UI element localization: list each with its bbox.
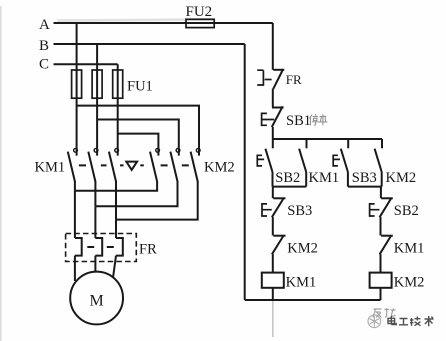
svg-text:KM2: KM2 — [287, 240, 318, 256]
coil KM2 — [370, 273, 425, 291]
wire fuse2 to KM1 contact 2 — [96, 70, 98, 156]
contactor KM2 NC interlock contact — [272, 235, 318, 256]
FR heater linkage dashes — [87, 246, 114, 248]
wire fuse1 to KM1 contact 1 — [76, 70, 78, 156]
wire tap B to KM2 contact 2 — [97, 120, 179, 156]
watermark 电工技术 text — [388, 316, 434, 326]
scan smear artifact above phase A — [57, 19, 213, 20]
svg-text:A: A — [39, 17, 50, 33]
svg-text:KM2: KM2 — [386, 170, 417, 186]
FR heater element 2 — [95, 238, 102, 256]
contactor KM2 aux NO contact — [375, 139, 417, 187]
coil KM1 — [262, 273, 316, 291]
mechanical linkage dashes with triangle — [79, 162, 189, 170]
wire KM1 NC to KM2 coil — [380, 254, 382, 273]
wire SB2 NC to KM1 NC — [380, 217, 382, 236]
wire FR heater 3 to motor — [113, 256, 116, 279]
watermark 反转 text — [373, 308, 396, 318]
wire merge bus left branch — [273, 186, 307, 188]
start button SB3 NO — [333, 139, 377, 187]
svg-text:SB1: SB1 — [286, 113, 311, 129]
svg-text:C: C — [39, 57, 49, 73]
wire KM2 coil to bottom bus — [380, 288, 382, 300]
wire tap A to KM2 contact 3 — [77, 106, 199, 156]
watermark logo circle — [368, 315, 381, 328]
wire control right rail from phase A — [272, 23, 274, 70]
svg-text:SB3: SB3 — [352, 170, 377, 186]
wire control left rail from phase B — [244, 44, 246, 300]
interlock button SB2 NC — [370, 198, 419, 219]
motor M — [70, 272, 123, 325]
fuse FU1 element 3 — [113, 70, 123, 98]
wire phase B drop to fuse 2 — [96, 44, 98, 70]
svg-text:SB3: SB3 — [287, 203, 312, 219]
svg-text:SB2: SB2 — [275, 170, 300, 186]
FR heater element 3 — [116, 238, 123, 256]
thermal relay FR dashed box — [66, 234, 137, 262]
contactor KM1 main contact 3 — [109, 148, 119, 181]
contactor KM2 main contact 1 — [150, 148, 160, 181]
wire right spine to SB2 NC — [380, 187, 382, 199]
svg-text:KM1: KM1 — [394, 240, 425, 256]
wire merge bus right branch — [348, 186, 382, 188]
wire FR heater 2 to motor — [94, 256, 96, 273]
wire FR to SB1 — [272, 89, 274, 108]
FR heater element 1 — [75, 238, 82, 256]
svg-text:KM2: KM2 — [394, 275, 425, 291]
wire column1 to FR heater 1 — [74, 191, 76, 238]
wire KM1-3 bottom to KM2-3 bottom — [116, 181, 198, 220]
wire KM2 NC to KM1 coil — [272, 254, 274, 273]
contactor KM2 main contact 3 — [191, 148, 201, 181]
wire phase C drop to fuse 3 — [117, 64, 119, 70]
wire branch top bus — [273, 138, 382, 140]
start button SB2 NO — [257, 139, 300, 187]
contactor KM2 main contact 2 — [170, 148, 180, 181]
wire tap C to KM2 contact 1 — [118, 134, 159, 156]
scan edge artifact — [0, 6, 2, 341]
wire KM1-2 bottom to KM2-2 bottom — [95, 181, 177, 206]
svg-text:SB2: SB2 — [394, 203, 419, 219]
wire SB1 to branch bus — [272, 127, 274, 139]
watermark faded wire stub — [272, 301, 274, 337]
svg-text:M: M — [90, 293, 104, 310]
fuse FU1 element 2 — [92, 70, 102, 98]
wire phase C horizontal — [54, 63, 118, 65]
svg-text:KM2: KM2 — [204, 160, 235, 176]
wire phase B horizontal — [54, 43, 245, 45]
svg-text:KM1: KM1 — [309, 170, 340, 186]
contactor KM1 main contact 2 — [88, 148, 98, 181]
wire column2 to FR heater 2 — [94, 206, 96, 238]
svg-text:FR: FR — [139, 242, 157, 258]
svg-text:FU2: FU2 — [186, 4, 213, 20]
wire column3 to FR heater 3 — [115, 220, 117, 238]
svg-text:KM1: KM1 — [286, 274, 317, 290]
contactor KM1 main contact 1 — [68, 148, 78, 181]
wire phase A horizontal — [54, 22, 273, 24]
wire KM1-1 bottom to KM2-1 bottom — [75, 181, 157, 191]
svg-text:B: B — [39, 38, 49, 54]
svg-text:KM1: KM1 — [35, 160, 66, 176]
wire fuse3 to KM1 contact 3 — [117, 70, 119, 156]
thermal relay FR NC contact (control) — [257, 69, 302, 89]
wire SB3 NC to KM2 NC — [272, 217, 274, 236]
wire left spine to SB3 NC — [272, 187, 274, 199]
contactor KM1 aux NO contact — [299, 139, 339, 187]
wire KM1 coil to bottom bus — [272, 288, 274, 300]
fuse FU2 — [186, 4, 215, 28]
stop button SB1 NC — [262, 106, 328, 129]
interlock button SB3 NC — [262, 198, 312, 219]
svg-text:FR: FR — [286, 72, 302, 87]
wire phase A drop to fuse 1 — [76, 23, 78, 70]
wire bottom bus — [245, 299, 381, 301]
fuse FU1 element 1 — [72, 70, 82, 98]
contactor KM1 NC interlock contact — [380, 235, 425, 256]
wire FR heater 1 to motor — [74, 256, 76, 281]
svg-text:FU1: FU1 — [127, 79, 153, 95]
